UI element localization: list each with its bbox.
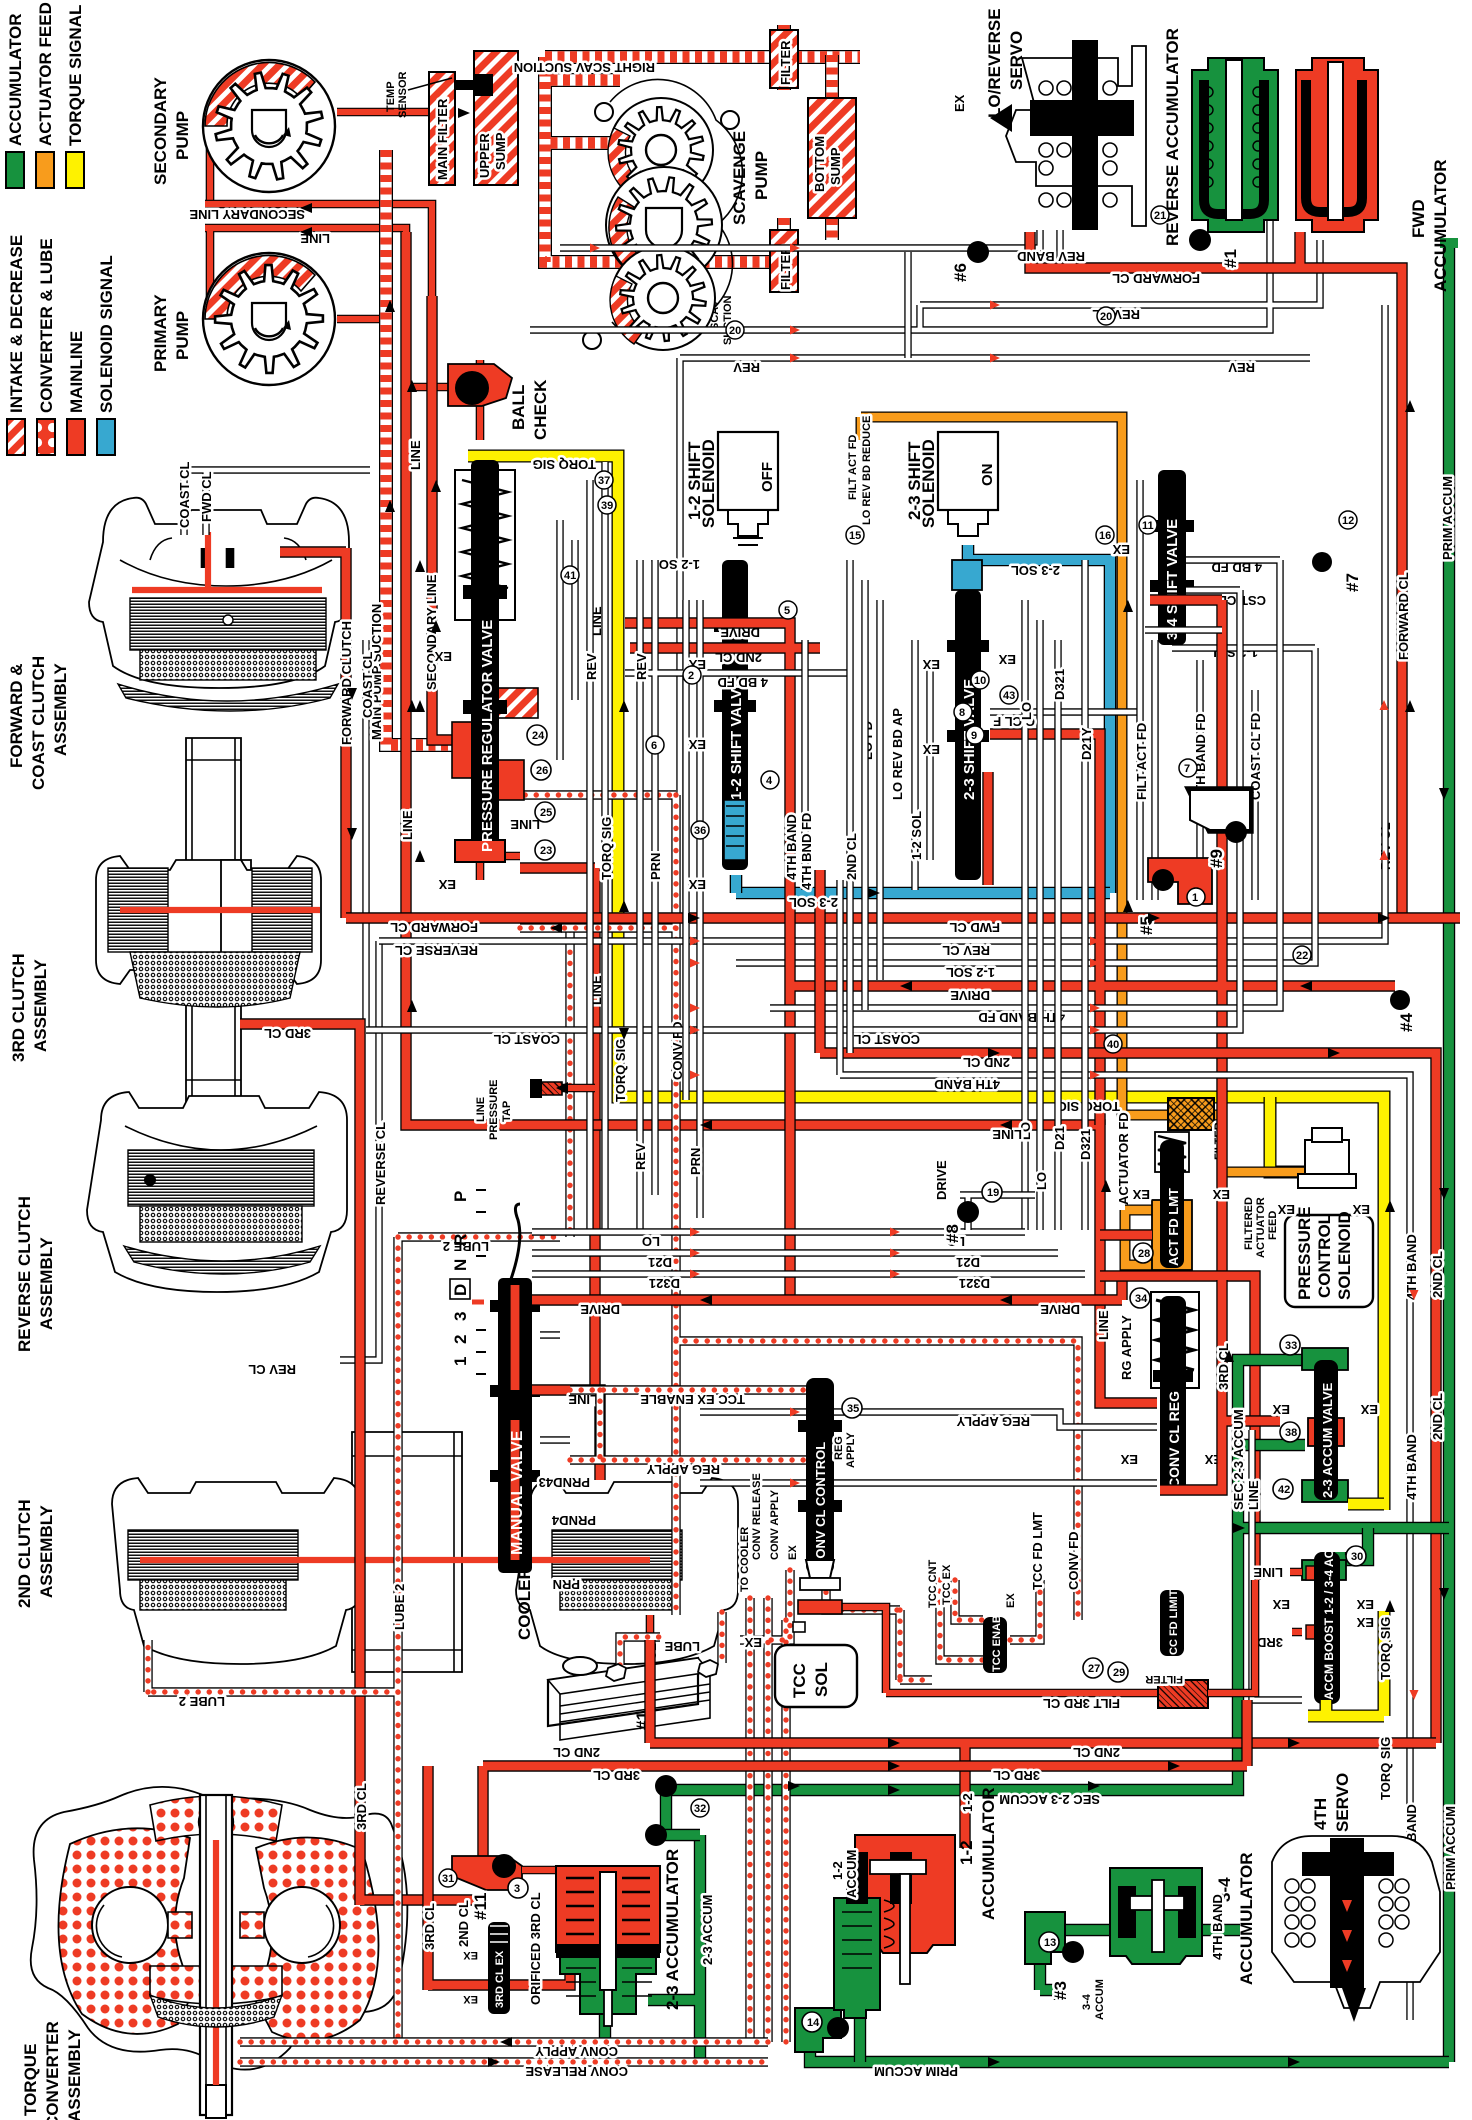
- svg-text:REVERSE CL: REVERSE CL: [373, 1122, 388, 1205]
- wire conv fd dotted from regulator: [514, 795, 1078, 1620]
- svg-text:6: 6: [651, 740, 657, 752]
- svg-text:3RD CL: 3RD CL: [422, 1903, 437, 1950]
- svg-text:ASSEMBLY: ASSEMBLY: [65, 2028, 84, 2120]
- reverse accumulator: [1163, 28, 1278, 246]
- svg-text:CONVERTER & LUBE: CONVERTER & LUBE: [37, 238, 56, 413]
- svg-text:PRN: PRN: [553, 1577, 580, 1592]
- svg-text:EX: EX: [463, 1993, 478, 2005]
- svg-text:4 BD FD: 4 BD FD: [717, 675, 768, 690]
- svg-text:TCC EX: TCC EX: [941, 1564, 953, 1605]
- svg-text:36: 36: [694, 825, 706, 837]
- svg-text:FORWARD CL: FORWARD CL: [1396, 572, 1411, 660]
- svg-text:1-2: 1-2: [960, 1793, 975, 1812]
- solenoid: [718, 432, 778, 510]
- cc fd lmt valve: [1160, 1590, 1184, 1656]
- wire 3rd cl red vertical: [1160, 1280, 1280, 1490]
- svg-text:PRN: PRN: [688, 1148, 703, 1175]
- svg-text:14: 14: [807, 2017, 820, 2029]
- svg-text:TORQ SIG: TORQ SIG: [533, 457, 596, 472]
- svg-text:REV: REV: [733, 360, 760, 375]
- wire lube2 dotted vertical: [148, 1237, 560, 2040]
- svg-text:ASSEMBLY: ASSEMBLY: [31, 958, 50, 1052]
- wire line from primary pump: [205, 228, 406, 319]
- wire right scav suction hatched: [545, 57, 860, 262]
- svg-text:EX: EX: [688, 737, 706, 752]
- svg-text:LINE: LINE: [475, 1097, 487, 1122]
- svg-text:PRND4: PRND4: [551, 1513, 596, 1528]
- svg-text:4TH: 4TH: [1311, 1798, 1330, 1830]
- svg-text:2-3 ACCUMULATOR: 2-3 ACCUMULATOR: [663, 1849, 682, 2010]
- svg-text:REVERSE CL: REVERSE CL: [395, 943, 478, 958]
- svg-text:EX: EX: [1356, 1615, 1374, 1630]
- svg-text:FILT ACT FD: FILT ACT FD: [847, 435, 859, 500]
- svg-text:31: 31: [442, 1873, 454, 1885]
- wire rev band white: [560, 230, 1060, 260]
- svg-text:EX: EX: [1352, 1202, 1370, 1217]
- svg-text:35: 35: [847, 1403, 859, 1415]
- svg-text:1-2 SOL: 1-2 SOL: [909, 811, 924, 860]
- svg-text:D321: D321: [1052, 669, 1067, 700]
- svg-text:D21: D21: [956, 1255, 980, 1270]
- svg-text:25: 25: [540, 807, 552, 819]
- svg-text:23: 23: [540, 845, 552, 857]
- wire 3rd cl red from 3rd clutch: [240, 1024, 480, 1905]
- svg-text:1-2: 1-2: [957, 1840, 976, 1865]
- svg-text:TORQUE: TORQUE: [21, 2044, 40, 2116]
- svg-text:D321: D321: [959, 1276, 990, 1291]
- svg-text:D: D: [451, 1284, 470, 1296]
- svg-text:COAST CLUTCH: COAST CLUTCH: [29, 656, 48, 790]
- wire forward cl red top: [1030, 232, 1402, 918]
- svg-text:MAIN FILTER: MAIN FILTER: [435, 98, 450, 180]
- svg-text:REV: REV: [1228, 360, 1255, 375]
- svg-text:CONVERTER: CONVERTER: [43, 2021, 62, 2120]
- svg-text:PRESSURE REGULATOR VALVE: PRESSURE REGULATOR VALVE: [479, 620, 496, 852]
- svg-text:ACCUMULATOR: ACCUMULATOR: [1431, 159, 1450, 292]
- svg-text:TORQ SIG: TORQ SIG: [1378, 1737, 1393, 1800]
- svg-text:ACTUATOR FEED: ACTUATOR FEED: [36, 2, 55, 146]
- svg-text:PUMP: PUMP: [173, 111, 192, 160]
- svg-text:SEC 2-3 ACCUM: SEC 2-3 ACCUM: [999, 1792, 1100, 1807]
- svg-text:PRESSURE: PRESSURE: [1295, 1206, 1314, 1300]
- svg-text:FILTER: FILTER: [1145, 1673, 1183, 1685]
- svg-text:TCC: TCC: [790, 1663, 809, 1698]
- svg-text:MAINLINE: MAINLINE: [67, 331, 86, 413]
- svg-text:LINE: LINE: [1246, 1480, 1261, 1510]
- svg-text:COAST CL: COAST CL: [360, 652, 375, 719]
- svg-text:EX: EX: [1112, 542, 1130, 557]
- svg-text:2ND CL: 2ND CL: [1430, 1251, 1445, 1298]
- svg-text:PRN: PRN: [648, 853, 663, 880]
- svg-text:EX: EX: [1120, 1452, 1138, 1467]
- svg-text:1-2 SOL: 1-2 SOL: [946, 965, 995, 980]
- svg-text:ACCM BOOST 1-2 / 3-4 ACC: ACCM BOOST 1-2 / 3-4 ACC: [1322, 1541, 1336, 1700]
- secondary pump: [203, 60, 335, 192]
- wire reg apply white: [700, 1412, 1157, 1483]
- svg-text:30: 30: [1351, 1551, 1363, 1563]
- svg-text:2ND CL: 2ND CL: [1430, 1393, 1445, 1440]
- svg-text:20: 20: [729, 325, 741, 337]
- svg-text:EX: EX: [922, 742, 940, 757]
- svg-text:PRESSURE: PRESSURE: [488, 1079, 500, 1140]
- svg-text:3RD CL: 3RD CL: [593, 1768, 640, 1783]
- svg-text:UPPER: UPPER: [477, 133, 492, 178]
- wire green u-loop: [666, 1360, 1449, 1835]
- svg-text:TAP: TAP: [501, 1101, 513, 1122]
- tcc enable valve: [983, 1617, 1007, 1673]
- svg-text:EX: EX: [787, 1545, 799, 1560]
- wire yellow under accm boost: [1308, 1504, 1384, 1716]
- filt 3rd cl filter: [1158, 1680, 1208, 1708]
- svg-text:ACCUM: ACCUM: [844, 1850, 859, 1898]
- svg-text:SENSOR: SENSOR: [397, 71, 409, 118]
- svg-text:LINE: LINE: [400, 810, 415, 840]
- wire 2-3 sol blue horizontal: [736, 887, 1110, 900]
- wire torq sig yellow: [468, 456, 1384, 1510]
- svg-text:#7: #7: [1343, 573, 1362, 592]
- svg-text:SERVO: SERVO: [1007, 31, 1026, 90]
- wire 4th band white: [840, 880, 1410, 2020]
- svg-text:TORQ SIG: TORQ SIG: [613, 1039, 628, 1102]
- svg-text:ASSEMBLY: ASSEMBLY: [37, 1236, 56, 1330]
- svg-text:LUBE: LUBE: [664, 1639, 700, 1654]
- svg-text:EX: EX: [1356, 1597, 1374, 1612]
- svg-text:LO: LO: [642, 1234, 660, 1249]
- svg-text:1-2 SHIFT VALVE: 1-2 SHIFT VALVE: [728, 679, 745, 800]
- svg-text:SECONDARY LINE: SECONDARY LINE: [424, 574, 439, 690]
- svg-text:EX: EX: [1360, 1402, 1378, 1417]
- svg-text:CONV CL REG: CONV CL REG: [1166, 1391, 1182, 1488]
- legend swatch solenoid signal: [97, 419, 115, 455]
- svg-text:26: 26: [536, 765, 548, 777]
- wire drive red lower: [532, 1276, 1122, 1300]
- wire line red lower elbow: [532, 1390, 600, 1480]
- svg-text:37: 37: [598, 475, 610, 487]
- svg-text:FILT ACT FD: FILT ACT FD: [1134, 723, 1149, 800]
- svg-text:3-4 SHIFT VALVE: 3-4 SHIFT VALVE: [1164, 519, 1181, 640]
- svg-text:BALL: BALL: [509, 385, 528, 430]
- svg-text:21: 21: [1154, 210, 1166, 222]
- node #7: [1312, 552, 1332, 572]
- svg-text:2-3 ACCUM: 2-3 ACCUM: [700, 1895, 715, 1965]
- svg-text:N: N: [451, 1259, 470, 1271]
- wire 4th band fd white: [770, 560, 1280, 1008]
- main filter: [429, 72, 455, 185]
- svg-text:3RD CLUTCH: 3RD CLUTCH: [9, 953, 28, 1062]
- svg-text:ACT FD LMT: ACT FD LMT: [1166, 1188, 1181, 1266]
- valve body: [722, 560, 748, 870]
- svg-text:LINE: LINE: [1253, 1565, 1283, 1580]
- svg-text:41: 41: [564, 570, 576, 582]
- svg-text:29: 29: [1113, 1667, 1125, 1679]
- wire yellow branch to pressure control solenoid: [1270, 1097, 1330, 1172]
- svg-text:LO/REVERSE: LO/REVERSE: [985, 8, 1004, 118]
- svg-text:13: 13: [1044, 1937, 1056, 1949]
- svg-text:ACCUMULATOR: ACCUMULATOR: [979, 1787, 998, 1920]
- svg-text:4TH BAND: 4TH BAND: [784, 814, 799, 880]
- filter box top: [770, 30, 798, 88]
- svg-text:DRIVE: DRIVE: [580, 1302, 620, 1317]
- svg-text:SECONDARY LINE: SECONDARY LINE: [189, 207, 305, 222]
- wire coast cl white: [366, 590, 1240, 1030]
- svg-text:CC FD LIMIT: CC FD LIMIT: [1168, 1589, 1180, 1655]
- legend swatch converter & lube: [37, 419, 55, 455]
- svg-text:REV CL: REV CL: [248, 1362, 296, 1377]
- svg-text:19: 19: [987, 1187, 999, 1199]
- svg-text:4TH BAND: 4TH BAND: [1404, 1434, 1419, 1500]
- svg-text:LO REV BD AP: LO REV BD AP: [890, 708, 905, 800]
- svg-text:FORWARD CL: FORWARD CL: [1112, 271, 1200, 286]
- svg-text:#8: #8: [943, 1224, 962, 1243]
- wire 2nd cl red: [820, 870, 1436, 1743]
- wire primary pump right outlet: [337, 315, 386, 324]
- svg-text:CONV APPLY: CONV APPLY: [769, 1489, 781, 1560]
- blue top: [968, 545, 1110, 893]
- svg-text:#3: #3: [1051, 1981, 1070, 2000]
- svg-text:34: 34: [1135, 1293, 1148, 1305]
- svg-text:APPLY: APPLY: [845, 1432, 857, 1468]
- svg-text:EX: EX: [952, 94, 967, 112]
- svg-text:EX: EX: [1005, 1593, 1017, 1608]
- svg-text:FORWARD CLUTCH: FORWARD CLUTCH: [339, 621, 354, 745]
- svg-text:DRIVE: DRIVE: [950, 988, 990, 1003]
- svg-text:FILT 3RD CL: FILT 3RD CL: [1043, 1696, 1120, 1711]
- svg-text:SOLENOID SIGNAL: SOLENOID SIGNAL: [97, 255, 116, 413]
- svg-text:CONV RELEASE: CONV RELEASE: [525, 2064, 628, 2079]
- svg-text:2: 2: [451, 1335, 470, 1344]
- svg-text:ASSEMBLY: ASSEMBLY: [51, 662, 70, 756]
- svg-text:BOTTOM: BOTTOM: [812, 136, 827, 192]
- node #6: [967, 241, 989, 263]
- svg-text:42: 42: [1278, 1484, 1290, 1496]
- svg-text:27: 27: [1088, 1663, 1100, 1675]
- svg-text:SOL: SOL: [812, 1662, 831, 1697]
- svg-text:11: 11: [1142, 520, 1154, 532]
- svg-text:40: 40: [1107, 1039, 1119, 1051]
- svg-text:EX: EX: [1272, 1597, 1290, 1612]
- wire main pump suction hatched vertical: [386, 150, 462, 745]
- svg-text:SOLENOID: SOLENOID: [919, 439, 938, 528]
- svg-text:EX: EX: [998, 652, 1016, 667]
- node #5: [1148, 858, 1212, 904]
- svg-text:REV BAND: REV BAND: [1017, 249, 1085, 264]
- svg-text:REG APPLY: REG APPLY: [956, 1414, 1030, 1429]
- svg-text:ACTUATOR FD: ACTUATOR FD: [1116, 1112, 1131, 1205]
- svg-text:2: 2: [688, 670, 694, 682]
- cooler: [548, 1658, 698, 1726]
- svg-text:#9: #9: [1207, 849, 1226, 868]
- svg-text:#6: #6: [951, 263, 970, 282]
- svg-text:3RD CL: 3RD CL: [354, 1783, 369, 1830]
- wire LINE red vertical: [406, 232, 1157, 1403]
- svg-text:#4: #4: [1397, 1013, 1416, 1032]
- svg-text:TCC EX ENABLE: TCC EX ENABLE: [640, 1392, 745, 1407]
- svg-text:D21: D21: [648, 1255, 672, 1270]
- svg-text:FEED: FEED: [1267, 1211, 1279, 1240]
- wire coast cl white vertical: [362, 640, 369, 1030]
- svg-text:TORQUE SIGNAL: TORQUE SIGNAL: [66, 5, 85, 146]
- svg-text:LUBE 2: LUBE 2: [179, 1694, 225, 1709]
- svg-text:COOLER: COOLER: [515, 1567, 534, 1640]
- svg-text:TORQ SIG: TORQ SIG: [1378, 1617, 1393, 1680]
- svg-text:9: 9: [971, 730, 977, 742]
- wire white rev lines: [530, 220, 1320, 900]
- svg-text:24: 24: [532, 730, 545, 742]
- legend swatch mainline: [67, 419, 85, 455]
- svg-text:#11: #11: [471, 1893, 490, 1920]
- svg-text:10: 10: [974, 675, 986, 687]
- svg-text:SUMP: SUMP: [493, 132, 508, 170]
- svg-text:INTAKE & DECREASE: INTAKE & DECREASE: [7, 235, 26, 413]
- svg-text:4: 4: [766, 775, 773, 787]
- svg-text:CONV RELEASE: CONV RELEASE: [751, 1473, 763, 1560]
- wire red feed to act fd lmt: [1100, 1229, 1152, 1240]
- svg-text:2ND CL: 2ND CL: [963, 1055, 1010, 1070]
- svg-text:SOLENOID: SOLENOID: [1335, 1211, 1354, 1300]
- svg-text:ACCUMULATOR: ACCUMULATOR: [1237, 1852, 1256, 1985]
- conv cl control valve: [806, 1378, 834, 1574]
- wire fwd cl red: [346, 912, 1460, 923]
- svg-text:CHECK: CHECK: [531, 379, 550, 440]
- fwd accumulator: [1296, 58, 1450, 292]
- svg-text:ACCUM: ACCUM: [1094, 1979, 1106, 2020]
- svg-text:33: 33: [1285, 1340, 1297, 1352]
- svg-text:CONV FD: CONV FD: [1066, 1532, 1081, 1591]
- svg-text:3RD: 3RD: [1257, 1635, 1283, 1650]
- svg-text:RG APPLY: RG APPLY: [1119, 1315, 1134, 1380]
- svg-text:TCC CNT: TCC CNT: [927, 1559, 939, 1608]
- wire sump filters hatched verticals: [784, 25, 832, 262]
- bottom sump: [808, 98, 856, 218]
- svg-text:SUMP: SUMP: [828, 147, 843, 185]
- svg-text:3: 3: [451, 1312, 470, 1321]
- svg-text:REV: REV: [633, 1143, 648, 1170]
- svg-text:EX: EX: [434, 649, 452, 664]
- svg-text:CONTROL: CONTROL: [1315, 1214, 1334, 1298]
- wire 1-2 sol white: [736, 648, 1315, 963]
- wire secondary line: [205, 204, 432, 300]
- svg-text:38: 38: [1285, 1427, 1297, 1439]
- svg-text:2ND CLUTCH: 2ND CLUTCH: [15, 1499, 34, 1608]
- wire dotted tcc lines: [570, 1390, 1040, 2042]
- svg-text:SERVO: SERVO: [1333, 1773, 1352, 1832]
- svg-text:EX: EX: [922, 657, 940, 672]
- svg-text:ACCUMULATOR: ACCUMULATOR: [6, 13, 25, 146]
- svg-text:16: 16: [1099, 530, 1111, 542]
- svg-text:FORWARD &: FORWARD &: [7, 663, 26, 768]
- svg-text:PUMP: PUMP: [173, 311, 192, 360]
- wire reverse cl white vertical: [340, 941, 379, 1360]
- svg-text:SOLENOID: SOLENOID: [699, 439, 718, 528]
- svg-text:COAST CL: COAST CL: [854, 1032, 921, 1047]
- node #9: [1190, 790, 1250, 830]
- node #4: [1390, 990, 1410, 1010]
- svg-text:1: 1: [451, 1357, 470, 1366]
- svg-text:REVERSE CLUTCH: REVERSE CLUTCH: [15, 1196, 34, 1352]
- svg-text:22: 22: [1296, 950, 1308, 962]
- wire green right edge: [1443, 245, 1455, 2062]
- svg-text:2-3 ACCUM VALVE: 2-3 ACCUM VALVE: [1320, 1382, 1335, 1498]
- svg-text:2-3 SOL: 2-3 SOL: [789, 895, 838, 910]
- svg-text:32: 32: [694, 1803, 706, 1815]
- svg-text:SEC 2-3 ACCUM: SEC 2-3 ACCUM: [1231, 1409, 1246, 1510]
- svg-text:P: P: [451, 1191, 470, 1202]
- svg-text:FORWARD CL: FORWARD CL: [390, 920, 478, 935]
- svg-text:2ND CL: 2ND CL: [553, 1745, 600, 1760]
- svg-text:3RD CL EX: 3RD CL EX: [494, 1950, 506, 2008]
- lo/reverse servo: [952, 8, 1146, 230]
- svg-text:12: 12: [1342, 515, 1354, 527]
- legend swatch actuator feed: [36, 152, 54, 188]
- node #1: [1189, 229, 1211, 251]
- wire secondary line into regulator: [432, 296, 462, 740]
- wire drive red: [625, 600, 1395, 1300]
- svg-text:EX: EX: [688, 877, 706, 892]
- svg-text:EX: EX: [463, 1949, 478, 1961]
- svg-text:DRIVE: DRIVE: [934, 1160, 949, 1200]
- svg-text:ON: ON: [979, 464, 996, 487]
- svg-text:4TH BAND: 4TH BAND: [934, 1077, 1000, 1092]
- wire reverse cl white: [379, 305, 1385, 941]
- svg-text:CONV CL CONTROL: CONV CL CONTROL: [813, 1442, 828, 1568]
- svg-text:28: 28: [1138, 1248, 1150, 1260]
- wire 3rd cl horizontal: [428, 1700, 1247, 1990]
- svg-text:3RD CL: 3RD CL: [1216, 1343, 1231, 1390]
- svg-text:1-2: 1-2: [830, 1861, 845, 1880]
- svg-text:#1: #1: [1221, 249, 1240, 268]
- wire red link line-conv: [1100, 1276, 1255, 1580]
- svg-text:2ND CL: 2ND CL: [1073, 1745, 1120, 1760]
- svg-text:ORIFICED 3RD CL: ORIFICED 3RD CL: [528, 1892, 543, 2005]
- svg-text:MANUAL VALVE: MANUAL VALVE: [509, 1430, 526, 1555]
- svg-text:4TH BAND: 4TH BAND: [1210, 1894, 1225, 1960]
- svg-text:EX: EX: [1272, 1402, 1290, 1417]
- svg-text:ACTUATOR: ACTUATOR: [1255, 1197, 1267, 1258]
- svg-text:TO COOLER: TO COOLER: [739, 1527, 751, 1592]
- svg-text:TORQ SIG: TORQ SIG: [599, 817, 614, 880]
- svg-text:ASSEMBLY: ASSEMBLY: [37, 1504, 56, 1598]
- wire lo d21 d321 whites: [532, 1232, 1085, 1440]
- filter box 2: [770, 230, 798, 292]
- svg-text:3RD CL: 3RD CL: [264, 1026, 311, 1041]
- svg-text:EX: EX: [438, 877, 456, 892]
- svg-text:RIGHT SCAV SUCTION: RIGHT SCAV SUCTION: [514, 60, 655, 75]
- svg-text:39: 39: [601, 500, 613, 512]
- svg-text:4TH BND FD: 4TH BND FD: [799, 813, 814, 890]
- svg-text:REG: REG: [833, 1436, 845, 1460]
- svg-text:3: 3: [514, 1883, 520, 1895]
- svg-text:LUBE 2: LUBE 2: [392, 1584, 407, 1630]
- svg-text:TCC ENABLE: TCC ENABLE: [991, 1601, 1003, 1672]
- svg-text:LO: LO: [1034, 1172, 1049, 1190]
- svg-text:SECONDARY: SECONDARY: [151, 76, 170, 185]
- svg-text:5: 5: [784, 605, 790, 617]
- svg-text:FILTERED: FILTERED: [1243, 1197, 1255, 1250]
- legend swatch torque signal: [66, 152, 84, 188]
- svg-text:REV: REV: [634, 653, 649, 680]
- svg-text:LO REV BD REDUCE: LO REV BD REDUCE: [861, 416, 873, 525]
- svg-text:D21Y: D21Y: [1079, 727, 1094, 760]
- svg-text:DRIVE: DRIVE: [1040, 1302, 1080, 1317]
- svg-text:COAST CL: COAST CL: [494, 1032, 561, 1047]
- svg-text:20: 20: [1100, 311, 1112, 323]
- wire forward clutch red vertical: [280, 548, 346, 918]
- node #8: [960, 1195, 1035, 1230]
- svg-text:LINE: LINE: [408, 440, 423, 470]
- svg-text:PRND43: PRND43: [539, 1475, 590, 1490]
- svg-text:REV CL: REV CL: [942, 943, 990, 958]
- svg-text:EX: EX: [1132, 1187, 1150, 1202]
